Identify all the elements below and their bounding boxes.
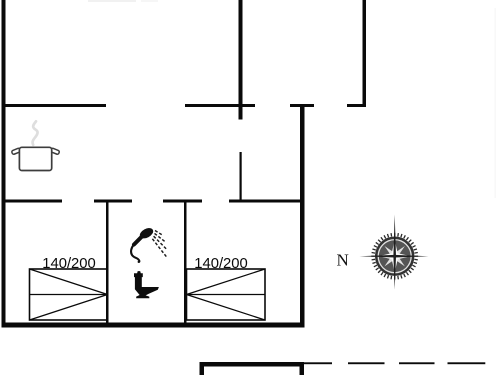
compass spike down xyxy=(393,256,396,289)
wall B segment 1 xyxy=(2,200,63,203)
wall right main vertical xyxy=(300,104,305,328)
compass rose xyxy=(360,215,429,290)
compass star xyxy=(379,240,411,272)
shower head xyxy=(131,226,155,262)
svg-text:140/200: 140/200 xyxy=(42,256,96,272)
faint dashed terrace line top xyxy=(88,0,158,2)
wall B segment 2 xyxy=(94,200,132,203)
wall A segment 1 xyxy=(2,104,107,107)
wall bathroom left xyxy=(106,202,109,323)
wall A segment 4 xyxy=(347,104,366,107)
annex dashed line 2 xyxy=(399,362,435,364)
annex dashed line 1 xyxy=(348,362,385,364)
compass teeth ring xyxy=(371,233,418,280)
bed 2 rectangle xyxy=(187,269,266,320)
shower spray xyxy=(152,231,167,258)
annex top wall xyxy=(200,362,305,367)
cooking pot body xyxy=(11,147,59,170)
compass ring xyxy=(377,238,413,274)
wall bathroom right xyxy=(184,202,187,323)
toilet xyxy=(134,271,159,298)
wall upper-right vertical xyxy=(363,0,367,107)
annex dashed line 3 xyxy=(448,362,486,364)
compass spike up xyxy=(393,215,396,257)
wall B segment 4 xyxy=(229,200,305,203)
compass spike left xyxy=(360,255,395,258)
annex thin wall line xyxy=(304,362,332,364)
svg-text:140/200: 140/200 xyxy=(194,256,248,272)
bed 1 rectangle xyxy=(30,269,108,320)
svg-text:N: N xyxy=(337,250,349,269)
wall bottom exterior xyxy=(2,323,305,328)
faint plot boundary line right xyxy=(495,8,496,198)
annex right wall xyxy=(300,362,305,375)
wall A segment 3 xyxy=(290,104,314,107)
cooking pot steam xyxy=(33,121,38,145)
wall B segment 3 xyxy=(163,200,202,203)
compass spike right xyxy=(395,255,429,258)
wall left exterior xyxy=(2,0,6,328)
annex left wall xyxy=(200,362,205,375)
compass inner disc xyxy=(378,240,411,273)
wall center thin vertical xyxy=(240,152,242,200)
wall A segment 2 xyxy=(185,104,255,107)
wall center thick vertical xyxy=(239,0,243,120)
